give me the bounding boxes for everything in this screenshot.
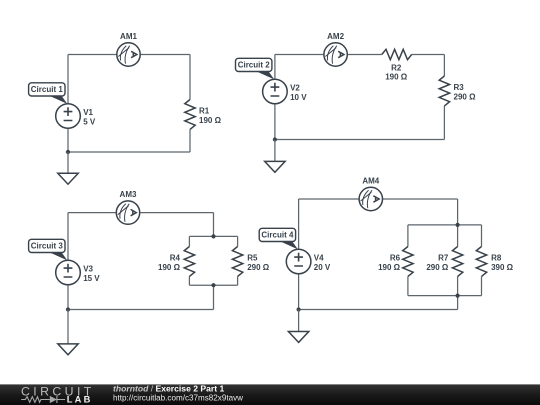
wire C1 below V1 — [67, 128, 69, 152]
svg-text:Circuit 2: Circuit 2 — [238, 61, 271, 70]
svg-text:R5: R5 — [247, 254, 258, 263]
node C3 top junction — [211, 234, 215, 238]
svg-text:290 Ω: 290 Ω — [426, 263, 449, 272]
footer bar — [0, 384, 540, 405]
label tag Circuit 2 — [236, 58, 275, 79]
svg-text:290 Ω: 290 Ω — [454, 92, 477, 101]
svg-text:390 Ω: 390 Ω — [491, 263, 514, 272]
resistor R8 — [476, 247, 513, 277]
svg-text:V2: V2 — [290, 84, 300, 93]
wire C4 top — [299, 198, 458, 200]
svg-text:AM4: AM4 — [362, 177, 379, 186]
svg-text:R6: R6 — [390, 254, 401, 263]
wire C1 bottom — [68, 151, 190, 153]
ammeter AM4 — [359, 177, 382, 211]
svg-text:15 V: 15 V — [83, 274, 100, 283]
node C3 bottom junction — [211, 283, 215, 287]
ammeter AM1 — [117, 32, 140, 66]
wire C3 top — [68, 212, 214, 214]
svg-text:190 Ω: 190 Ω — [385, 73, 408, 82]
wire C3 box bottom rail — [189, 284, 237, 286]
wire C3 right feed — [213, 213, 215, 237]
svg-text:R4: R4 — [170, 254, 181, 263]
wire C2 top right — [412, 54, 445, 56]
resistor R4 — [158, 247, 195, 277]
node C1 junction — [66, 150, 70, 154]
resistor R6 — [378, 247, 413, 277]
svg-text:290 Ω: 290 Ω — [247, 263, 270, 272]
ground C4 — [288, 310, 308, 343]
wire C3 left — [67, 213, 69, 261]
wire C4 right feed — [457, 199, 459, 225]
svg-text:190 Ω: 190 Ω — [158, 263, 181, 272]
svg-text:10 V: 10 V — [290, 93, 307, 102]
wire C4 bottom feed — [457, 296, 459, 310]
resistor R7 — [426, 247, 462, 277]
svg-text:190 Ω: 190 Ω — [378, 263, 401, 272]
voltage source V3 — [56, 260, 101, 285]
wire C4 below V4 — [298, 274, 300, 310]
svg-text:V4: V4 — [314, 254, 324, 263]
wire C2 below V2 — [274, 104, 276, 140]
svg-text:AM3: AM3 — [120, 190, 137, 199]
ammeter AM3 — [116, 190, 139, 224]
ground C1 — [58, 152, 78, 184]
svg-text:V1: V1 — [83, 108, 93, 117]
node C2 junction — [273, 137, 277, 141]
resistor R2 — [382, 49, 412, 81]
svg-text:Circuit 4: Circuit 4 — [261, 231, 294, 240]
svg-text:LAB: LAB — [67, 395, 93, 405]
svg-text:R8: R8 — [491, 254, 502, 263]
voltage source V4 — [286, 249, 331, 274]
footer title line — [113, 384, 225, 394]
wire C1 top — [68, 54, 190, 56]
logo resistor-diode symbol — [21, 396, 65, 403]
node C4 bottom junction — [456, 294, 460, 298]
resistor R5 — [232, 247, 269, 277]
voltage source V1 — [56, 104, 96, 129]
svg-text:5 V: 5 V — [83, 117, 96, 126]
wire C2 left — [274, 55, 276, 80]
node C4 ground junction — [297, 307, 301, 311]
wire C4 bottom — [299, 309, 458, 311]
svg-text:V3: V3 — [83, 265, 93, 274]
resistor R1 — [185, 100, 222, 130]
label tag Circuit 1 — [29, 83, 68, 104]
wire C3 R5 stubs — [237, 236, 239, 285]
wire C4 box top rail — [408, 224, 482, 226]
svg-text:R7: R7 — [438, 254, 449, 263]
wire C2 top left — [275, 54, 382, 56]
svg-text:http://circuitlab.com/c37ms82x: http://circuitlab.com/c37ms82x9tavw — [113, 392, 244, 402]
wire C2 bottom — [275, 139, 445, 141]
wire C3 below V3 — [67, 285, 69, 310]
wire C3 R4 stubs — [188, 236, 190, 285]
node C3 ground junction — [66, 307, 70, 311]
svg-text:Circuit 1: Circuit 1 — [31, 85, 64, 94]
wire C3 bottom — [68, 309, 214, 311]
svg-text:R1: R1 — [199, 107, 210, 116]
wire C4 R8 stubs — [481, 225, 483, 296]
node C4 top junction — [456, 223, 460, 227]
wire C4 R7 stubs — [457, 225, 459, 296]
wire C2 right below R3 — [443, 106, 445, 140]
logo CIRCUIT text — [21, 384, 95, 398]
label tag Circuit 3 — [29, 239, 68, 260]
ground C3 — [58, 310, 78, 355]
svg-text:AM2: AM2 — [327, 32, 344, 41]
wire C1 left — [67, 55, 69, 104]
wire C2 right above R3 — [443, 55, 445, 77]
wire C1 right top — [189, 55, 191, 100]
svg-text:R3: R3 — [454, 83, 465, 92]
label tag Circuit 4 — [259, 228, 298, 249]
footer url line — [113, 392, 244, 402]
ground C2 — [265, 140, 285, 173]
ammeter AM2 — [324, 32, 347, 66]
svg-text:R2: R2 — [391, 63, 402, 72]
svg-text:20 V: 20 V — [314, 263, 331, 272]
wire C3 bottom feed — [213, 285, 215, 309]
wire C1 right bottom — [189, 129, 191, 152]
wire C4 left — [298, 199, 300, 249]
svg-text:Circuit 3: Circuit 3 — [31, 242, 64, 251]
wire C3 box top rail — [189, 235, 237, 237]
voltage source V2 — [263, 79, 308, 104]
wire C4 R6 stubs — [407, 225, 409, 296]
wire C4 box bottom rail — [408, 295, 482, 297]
resistor R3 — [439, 76, 476, 106]
logo LAB text — [67, 395, 93, 405]
svg-text:190 Ω: 190 Ω — [199, 116, 222, 125]
svg-text:AM1: AM1 — [120, 32, 137, 41]
